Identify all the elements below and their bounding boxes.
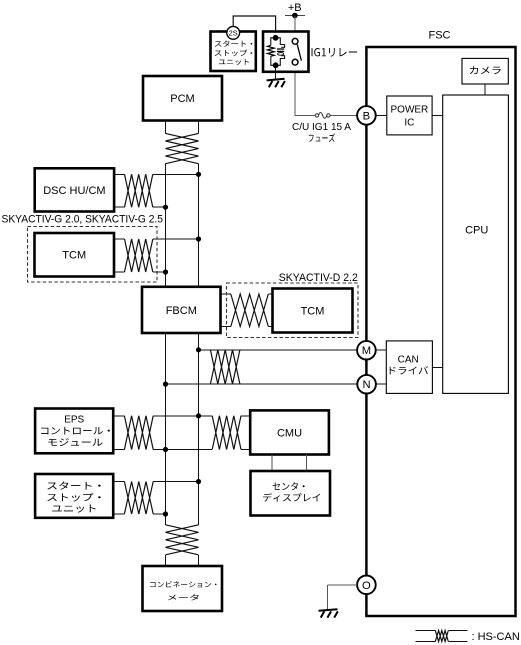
dashed box SKYACTIV-G (28, 227, 158, 283)
svg-text:FSC: FSC (429, 30, 451, 42)
wire N to CAN driver (376, 383, 386, 385)
wire O to ground (328, 584, 358, 586)
svg-text:TCM: TCM (62, 250, 86, 262)
wire DSC HU/CM pair (114, 173, 125, 175)
svg-text:CAN: CAN (398, 354, 419, 365)
svg-text:FBCM: FBCM (166, 305, 197, 317)
twisted pair FBCM-TCM(D) (231, 294, 268, 327)
legend twisted pair coil (435, 631, 448, 642)
wire +B to relay switch (294, 16, 296, 39)
TCM (gasoline) box (35, 233, 115, 277)
wire bus to connector N (166, 383, 358, 385)
relay coil bottom junction (273, 62, 279, 68)
wire camera to CPU (484, 84, 486, 95)
wire 2S to relay coil (233, 16, 275, 35)
junction M wire (196, 347, 201, 352)
CPU box (443, 95, 509, 393)
relay label IG1 (312, 48, 358, 57)
wire B to POWER IC (376, 114, 387, 116)
wire bus to connector M (199, 349, 358, 351)
junction EPS-H (196, 413, 201, 418)
junction TCM-G-L (163, 269, 168, 274)
wire relay switch to fuse (294, 65, 296, 115)
svg-text:POWER: POWER (391, 105, 429, 116)
connector O (357, 576, 376, 595)
svg-text:TCM: TCM (301, 305, 325, 317)
wire CAN driver to CPU (432, 366, 442, 368)
svg-text:B: B (363, 110, 370, 122)
svg-text:2S: 2S (229, 29, 238, 38)
DSC HU/CM box (35, 168, 114, 211)
TCM (diesel) box (273, 289, 353, 333)
relay switch blade (297, 44, 301, 60)
relay coil core bars (277, 48, 284, 50)
combination meter text1 (150, 581, 216, 587)
CAN driver box (386, 341, 432, 394)
connector 2S circle (227, 26, 240, 39)
camera label (470, 66, 501, 74)
wire EPS-CMU pair top (114, 415, 125, 417)
svg-text:IC: IC (404, 118, 414, 129)
EPS text3 (48, 438, 102, 446)
wire right CAN bus line (198, 121, 200, 134)
wire TCM (G) pair (114, 238, 125, 240)
junction N wire (163, 382, 168, 387)
twisted pair start-stop unit (124, 482, 153, 515)
wire start-stop unit pair (114, 481, 125, 483)
POWER IC box (387, 96, 432, 135)
combination meter box (143, 566, 223, 611)
wire POWER IC to CPU (432, 114, 443, 116)
+B supply bar (285, 15, 305, 17)
junction SS-L (163, 511, 168, 516)
wire fuse to connector B (330, 114, 357, 116)
junction DSC-H (196, 172, 201, 177)
wire relay coil to ground (275, 68, 277, 80)
start-stop low text3 (52, 505, 95, 513)
relay coil top junction (273, 35, 279, 41)
relay coil outline (271, 38, 276, 66)
PCM box (143, 76, 222, 121)
svg-text:CMU: CMU (277, 427, 302, 439)
junction EPS-L (163, 447, 168, 452)
wire left CAN bus line (165, 121, 167, 134)
wire M to CAN driver (376, 349, 387, 351)
center display text2 (263, 493, 320, 502)
EPS text2 (41, 427, 110, 435)
EPS module box (35, 409, 113, 454)
FSC module outline (366, 47, 515, 616)
twisted pair DSC HU/CM (125, 174, 153, 207)
+B junction dot (292, 13, 298, 19)
dashed box SKYACTIV-D (227, 283, 359, 338)
start-stop top text1 (215, 41, 253, 47)
center display box (251, 471, 331, 516)
svg-text:EPS: EPS (64, 415, 84, 426)
connector N (357, 375, 376, 394)
start-stop unit (top) box (211, 32, 256, 72)
wire CMU to center display (271, 455, 273, 472)
CMU box (250, 410, 329, 454)
twisted pair TCM (G) (125, 239, 153, 272)
fuse label line2 fuse katakana (309, 133, 335, 142)
connector M (357, 341, 376, 360)
svg-text:SKYACTIV-D 2.2: SKYACTIV-D 2.2 (279, 272, 358, 284)
camera box (462, 58, 508, 84)
svg-text:C/U IG1 15 A: C/U IG1 15 A (292, 121, 351, 133)
svg-text:CPU: CPU (465, 224, 488, 236)
twisted pair to FSC (210, 350, 240, 384)
combination meter text2 (168, 594, 199, 600)
fuse C/U IG1 15A (315, 114, 318, 117)
center display text1 (273, 482, 305, 490)
svg-text:DSC HU/CM: DSC HU/CM (43, 185, 105, 197)
ground below relay (267, 79, 285, 81)
svg-text:SKYACTIV-G 2.0, SKYACTIV-G 2.5: SKYACTIV-G 2.0, SKYACTIV-G 2.5 (2, 213, 164, 225)
relay switch contact top (292, 38, 298, 44)
start-stop top text3 (219, 59, 249, 65)
twisted pair EPS (124, 416, 153, 450)
ground below FSC (319, 609, 338, 611)
twisted pair below PCM (166, 133, 199, 163)
svg-text:PCM: PCM (170, 93, 194, 105)
relay coil zigzag (267, 45, 274, 56)
junction TCM-G-H (196, 236, 201, 241)
FBCM box (142, 287, 221, 333)
CAN driver label2 (390, 366, 429, 374)
svg-text:: HS-CAN: : HS-CAN (472, 631, 520, 643)
connector B (357, 106, 376, 125)
IG1 relay box (263, 32, 309, 72)
start-stop low text2 (47, 493, 100, 502)
legend twisted pair wires (415, 630, 435, 632)
junction DSC-L (163, 205, 168, 210)
twisted pair CMU (212, 416, 241, 450)
relay switch contact bottom (292, 59, 298, 65)
svg-text:M: M (362, 345, 371, 357)
svg-text:O: O (362, 580, 371, 592)
wire FBCM to TCM (D) pair (221, 293, 231, 295)
start-stop low text1 (47, 482, 100, 490)
svg-text:N: N (363, 379, 371, 391)
wire EPS-CMU pair bottom (114, 449, 125, 451)
svg-text:+B: +B (288, 2, 302, 14)
junction SS-H (196, 479, 201, 484)
twisted pair above combination meter (166, 525, 199, 555)
start-stop unit (lower) box (35, 474, 113, 518)
start-stop top text2 (215, 50, 253, 57)
